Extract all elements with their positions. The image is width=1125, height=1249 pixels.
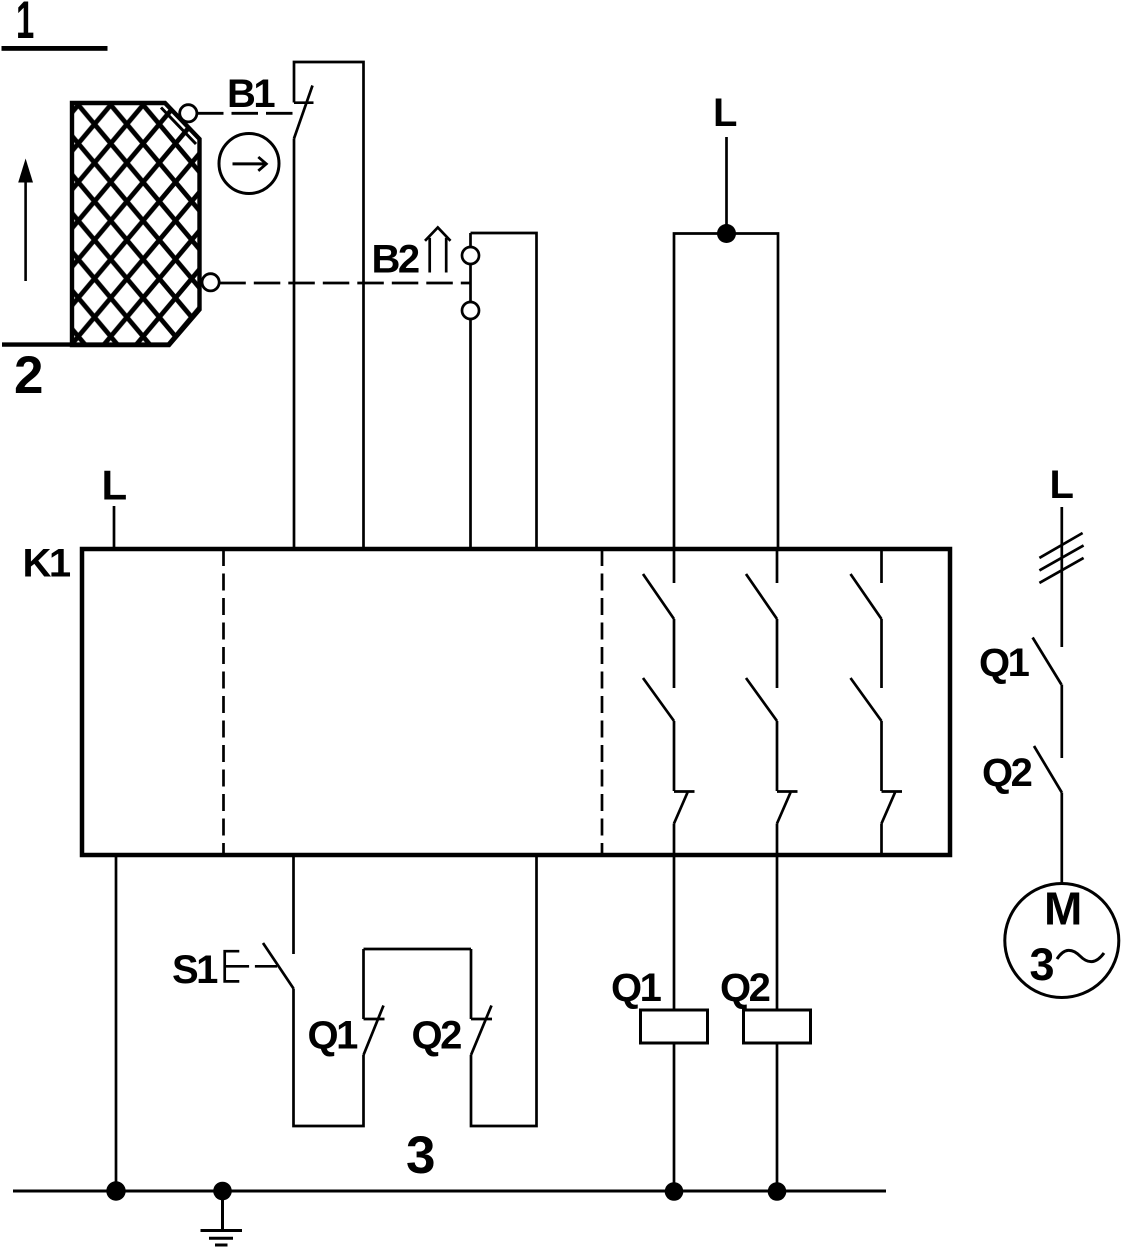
svg-text:Q1: Q1 [611,966,662,1010]
contactor main contacts column 1 [643,549,695,855]
svg-text:K1: K1 [23,542,71,586]
flow sensor (circle with arrow) [219,134,279,194]
three-phase slashes [1039,533,1083,583]
Q2 coil [744,1010,811,1043]
svg-text:Q2: Q2 [412,1014,462,1058]
latch top wire [364,948,472,951]
junction dot Q2 coil [768,1182,787,1201]
svg-text:1: 1 [16,0,34,50]
svg-text:S1: S1 [172,948,218,992]
svg-text:L: L [102,462,128,509]
sensor tap circle top (B1 probe) [180,105,197,122]
B2 contact loop (tower 2) with two terminal circles [462,233,537,549]
junction dot left [106,1181,125,1200]
svg-text:M: M [1044,883,1082,935]
B2 dashed actuation link [219,282,470,285]
contactor main contacts column 2 [746,549,798,855]
B1 contact loop (tower 1) [294,62,364,549]
S1 actuator bracket [225,951,277,981]
left output wire below box [115,855,118,1191]
svg-text:B2: B2 [372,237,419,281]
junction dot ground [213,1182,232,1201]
B2 pressure arrow symbol [425,228,451,273]
duct bottom wall line [2,342,169,346]
Q1 breaker contact [1033,638,1062,685]
Q1 coil branch wire [673,855,676,1191]
tower 3 (coil supply loop) [674,234,778,550]
Q1 coil [641,1010,708,1043]
S1 contact blade [263,943,294,989]
B1 dashed actuation link [197,112,294,115]
wire to motor [1060,793,1063,884]
svg-text:3: 3 [1030,939,1055,990]
wire between breakers [1060,685,1063,759]
Q2 coil branch wire [776,855,779,1191]
motor feeder wire top [1060,507,1063,647]
sensor tap circle bottom (B2 probe) [202,274,219,291]
junction dot Q1 coil [665,1182,684,1201]
Q2 NC aux contact (latch) [471,855,537,1126]
svg-text:Q1: Q1 [979,641,1030,685]
L wire left [113,506,116,549]
svg-text:Q1: Q1 [308,1014,359,1058]
ground symbol [201,1191,243,1245]
Q1 NC aux contact (latch) [364,949,385,1055]
svg-text:3: 3 [406,1126,435,1185]
S1 pushbutton branch wire [294,855,364,1126]
duct/filter hatched block [72,103,200,345]
junction dot on tower 3 [717,224,736,243]
svg-text:2: 2 [14,346,43,405]
contactor main contacts column 3 [851,549,903,855]
svg-text:L: L [713,91,737,135]
svg-text:Q2: Q2 [982,751,1032,795]
dashed separator 2 [601,549,604,855]
duct air-flow arrow [18,159,33,282]
K1 relay box [82,549,950,855]
svg-text:L: L [1050,463,1074,507]
dashed separator 1 [222,549,225,855]
Q2 breaker contact [1034,746,1062,793]
motor M 3~ [1005,883,1119,998]
svg-text:Q2: Q2 [720,966,770,1010]
svg-text:B1: B1 [227,72,275,116]
L supply wire [725,137,728,234]
bottom rail [13,1190,886,1193]
